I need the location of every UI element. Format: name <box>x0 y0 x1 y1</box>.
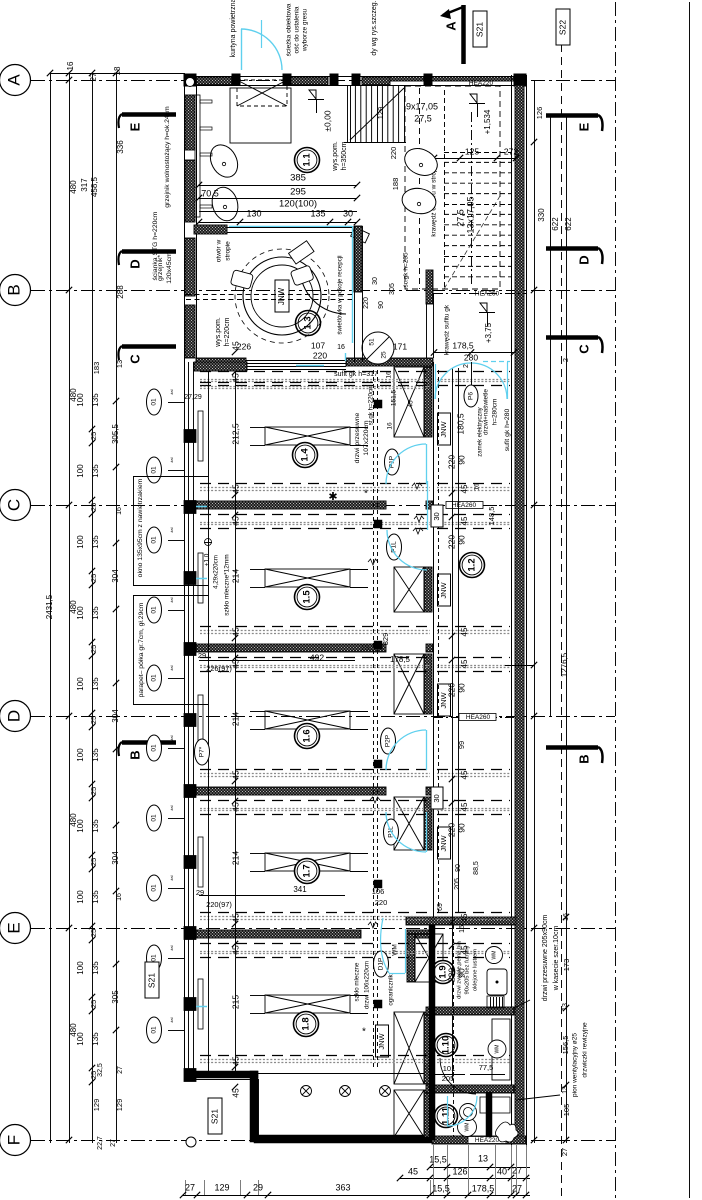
svg-text:45: 45 <box>230 373 240 383</box>
svg-text:B: B <box>127 750 142 759</box>
svg-text:01: 01 <box>151 1026 158 1034</box>
svg-text:99: 99 <box>457 741 466 749</box>
svg-text:B: B <box>4 284 23 295</box>
svg-text:HEA220: HEA220 <box>475 1137 500 1144</box>
svg-text:215: 215 <box>230 995 240 1009</box>
svg-text:st.gk h=220cm: st.gk h=220cm <box>368 385 375 425</box>
svg-text:żal: żal <box>169 665 174 670</box>
svg-text:100: 100 <box>76 393 85 407</box>
svg-text:25: 25 <box>89 716 98 724</box>
svg-text:100: 100 <box>76 748 85 762</box>
svg-text:01: 01 <box>151 466 158 474</box>
svg-text:16: 16 <box>66 61 75 70</box>
svg-text:29: 29 <box>253 1182 263 1192</box>
svg-text:212,5: 212,5 <box>230 423 240 445</box>
svg-text:grzejnik*: grzejnik* <box>157 255 164 281</box>
svg-text:27,29: 27,29 <box>184 394 202 401</box>
svg-text:P7*: P7* <box>199 746 206 757</box>
svg-text:drzwiczki rewizyjne: drzwiczki rewizyjne <box>582 1022 589 1078</box>
svg-text:135: 135 <box>310 208 325 218</box>
svg-text:grzejnik wolnostożący h=ok.24c: grzejnik wolnostożący h=ok.24cm <box>164 106 171 208</box>
svg-text:188: 188 <box>391 178 400 191</box>
svg-text:90: 90 <box>456 455 466 465</box>
svg-text:JNW: JNW <box>277 287 286 305</box>
svg-text:183: 183 <box>92 362 101 375</box>
svg-text:220(97): 220(97) <box>206 900 232 909</box>
svg-text:25: 25 <box>89 574 98 582</box>
svg-text:25: 25 <box>89 1000 98 1008</box>
svg-text:151,5: 151,5 <box>391 389 398 406</box>
svg-text:220: 220 <box>446 683 456 697</box>
svg-text:1.7: 1.7 <box>302 864 313 877</box>
svg-text:01: 01 <box>151 398 158 406</box>
svg-text:29: 29 <box>198 651 206 660</box>
svg-text:✱: ✱ <box>328 491 337 503</box>
svg-text:304: 304 <box>111 569 120 583</box>
svg-text:220: 220 <box>446 968 456 982</box>
svg-text:13: 13 <box>115 360 124 368</box>
svg-text:wys.pom.: wys.pom. <box>215 317 222 348</box>
svg-text:385: 385 <box>290 173 306 184</box>
svg-text:135: 135 <box>91 464 100 478</box>
svg-text:25: 25 <box>89 787 98 795</box>
svg-text:100: 100 <box>76 606 85 620</box>
svg-text:51: 51 <box>369 338 376 346</box>
svg-text:129: 129 <box>92 1099 101 1112</box>
svg-text:parapet– półka gr.7cm, gł.29cm: parapet– półka gr.7cm, gł.29cm <box>138 602 145 697</box>
svg-text:sufit gk h=317: sufit gk h=317 <box>334 371 378 378</box>
svg-text:oklejone lustrem: oklejone lustrem <box>473 949 479 991</box>
svg-text:A: A <box>443 21 458 31</box>
svg-text:1.2: 1.2 <box>467 558 478 571</box>
svg-text:HEA260: HEA260 <box>475 291 500 298</box>
svg-text:9x17,05: 9x17,05 <box>406 101 438 111</box>
svg-text:zamek elektryczny: zamek elektryczny <box>478 407 484 456</box>
svg-text:30: 30 <box>372 277 379 285</box>
svg-text:180,5: 180,5 <box>455 413 465 435</box>
svg-text:w kasecie szer.10cm: w kasecie szer.10cm <box>553 926 560 992</box>
svg-text:h=220cm: h=220cm <box>224 317 231 346</box>
svg-text:69: 69 <box>437 903 444 911</box>
svg-text:F: F <box>4 1135 23 1145</box>
svg-text:30: 30 <box>343 208 353 218</box>
svg-text:B: B <box>576 754 591 763</box>
svg-text:100: 100 <box>76 677 85 691</box>
svg-text:01: 01 <box>151 606 158 614</box>
svg-text:27,5: 27,5 <box>414 113 432 123</box>
svg-text:205: 205 <box>454 878 461 890</box>
svg-text:P2P: P2P <box>385 735 392 747</box>
svg-text:305: 305 <box>389 283 396 295</box>
svg-text:90: 90 <box>456 535 466 545</box>
svg-text:70,5: 70,5 <box>201 188 219 198</box>
svg-text:S21: S21 <box>474 22 484 37</box>
svg-text:45: 45 <box>230 484 240 494</box>
svg-text:45: 45 <box>230 802 240 812</box>
svg-text:107: 107 <box>311 340 325 350</box>
svg-text:100: 100 <box>76 464 85 478</box>
svg-text:1.5: 1.5 <box>302 590 313 604</box>
svg-text:WM: WM <box>392 944 399 956</box>
svg-text:27: 27 <box>110 1139 117 1147</box>
svg-text:16: 16 <box>116 507 123 515</box>
svg-text:D: D <box>4 710 23 722</box>
svg-text:+1,534: +1,534 <box>483 109 492 134</box>
svg-text:205: 205 <box>442 1074 455 1083</box>
svg-text:żal: żal <box>169 597 174 602</box>
svg-text:280: 280 <box>464 352 478 362</box>
svg-text:śc.gk h=235: śc.gk h=235 <box>403 252 410 288</box>
svg-text:45: 45 <box>230 945 240 955</box>
svg-text:341: 341 <box>293 885 307 894</box>
svg-text:S21: S21 <box>146 973 156 988</box>
svg-text:27,5: 27,5 <box>455 209 465 227</box>
svg-text:101: 101 <box>443 1064 456 1073</box>
svg-text:45: 45 <box>230 913 240 923</box>
svg-text:*: * <box>364 489 368 500</box>
svg-text:304: 304 <box>111 709 120 723</box>
svg-text:45: 45 <box>460 802 469 811</box>
svg-text:1.10: 1.10 <box>441 1036 452 1055</box>
svg-text:1.11: 1.11 <box>441 1106 452 1125</box>
svg-text:13: 13 <box>478 1153 488 1163</box>
svg-text:1.8: 1.8 <box>301 1017 312 1030</box>
svg-text:25: 25 <box>89 858 98 866</box>
svg-text:90: 90 <box>456 823 466 833</box>
svg-text:295: 295 <box>290 187 306 198</box>
svg-text:WM: WM <box>464 1123 470 1132</box>
svg-text:171: 171 <box>393 341 407 351</box>
svg-text:h=350cm: h=350cm <box>341 141 348 170</box>
svg-text:01: 01 <box>151 814 158 822</box>
svg-text:220: 220 <box>313 350 327 360</box>
svg-text:126: 126 <box>535 107 544 120</box>
svg-text:szkło mleczne*12mm: szkło mleczne*12mm <box>224 554 231 615</box>
svg-text:1.4: 1.4 <box>300 448 311 462</box>
svg-text:15,5: 15,5 <box>429 1154 447 1164</box>
svg-text:173: 173 <box>562 959 571 972</box>
svg-text:ość do ustalenia: ość do ustalenia <box>294 6 301 53</box>
svg-text:30: 30 <box>432 512 441 520</box>
svg-text:25: 25 <box>381 351 388 359</box>
svg-text:16: 16 <box>337 344 345 351</box>
svg-text:stropie: stropie <box>225 241 232 261</box>
svg-text:220: 220 <box>389 147 398 160</box>
svg-text:77,5: 77,5 <box>479 1063 494 1072</box>
svg-text:135: 135 <box>91 890 100 904</box>
svg-text:JNW: JNW <box>377 1032 386 1049</box>
svg-text:żal: żal <box>169 457 174 462</box>
svg-text:25: 25 <box>89 503 98 511</box>
svg-text:22,7: 22,7 <box>97 1136 104 1150</box>
svg-text:16: 16 <box>387 422 394 430</box>
svg-text:kurtyna powietrzna: kurtyna powietrzna <box>230 0 237 57</box>
svg-text:ogranicznik: ogranicznik <box>388 973 395 1005</box>
svg-text:288: 288 <box>116 285 125 299</box>
svg-text:45: 45 <box>230 1088 240 1098</box>
svg-text:45: 45 <box>460 484 469 493</box>
svg-text:130: 130 <box>246 208 261 218</box>
svg-text:135: 135 <box>91 606 100 620</box>
svg-text:13: 13 <box>562 1003 569 1011</box>
svg-text:01: 01 <box>151 674 158 682</box>
svg-text:otwór w: otwór w <box>216 240 223 263</box>
svg-text:25: 25 <box>89 929 98 937</box>
svg-text:30: 30 <box>432 794 441 802</box>
svg-text:25: 25 <box>89 645 98 653</box>
svg-text:220: 220 <box>446 535 456 549</box>
svg-text:129: 129 <box>214 1182 229 1192</box>
svg-text:krawędź sufitu gk: krawędź sufitu gk <box>444 304 451 355</box>
svg-text:129: 129 <box>115 1099 124 1112</box>
svg-text:90: 90 <box>455 864 462 872</box>
svg-text:01: 01 <box>151 954 158 962</box>
svg-text:01: 01 <box>151 744 158 752</box>
svg-text:178,5: 178,5 <box>472 1183 495 1193</box>
svg-text:4,29x220cm: 4,29x220cm <box>213 555 220 589</box>
svg-text:135: 135 <box>91 748 100 762</box>
svg-text:304: 304 <box>111 851 120 865</box>
svg-text:305: 305 <box>111 990 120 1004</box>
svg-text:45: 45 <box>460 659 469 668</box>
svg-text:106: 106 <box>372 887 385 896</box>
svg-text:16: 16 <box>474 483 481 491</box>
svg-text:135: 135 <box>91 819 100 833</box>
svg-text:1276,5: 1276,5 <box>560 652 569 677</box>
svg-text:305,5: 305,5 <box>111 423 120 444</box>
svg-text:214: 214 <box>230 712 240 726</box>
svg-text:27: 27 <box>185 1182 195 1192</box>
svg-text:HEA260: HEA260 <box>466 714 491 721</box>
svg-text:C: C <box>576 344 591 354</box>
svg-text:317: 317 <box>80 178 89 192</box>
svg-text:żal: żal <box>169 945 174 950</box>
svg-text:15,5: 15,5 <box>361 643 376 652</box>
svg-text:90x205 bez futryny: 90x205 bez futryny <box>465 945 471 994</box>
svg-text:P1L: P1L <box>391 541 398 553</box>
svg-text:żal: żal <box>169 735 174 740</box>
svg-text:drzwi 106x220cm: drzwi 106x220cm <box>364 961 371 1009</box>
svg-text:1.6: 1.6 <box>302 729 313 742</box>
svg-text:wys.pom.: wys.pom. <box>332 141 339 172</box>
svg-text:135: 135 <box>91 1032 100 1046</box>
svg-text:+3,75: +3,75 <box>484 322 493 343</box>
svg-text:D: D <box>127 259 142 268</box>
svg-text:16: 16 <box>386 371 393 379</box>
svg-text:88,5: 88,5 <box>473 861 480 875</box>
svg-text:45: 45 <box>408 400 415 408</box>
svg-text:WM: WM <box>491 951 497 960</box>
svg-text:622: 622 <box>551 217 560 231</box>
svg-text:JNW: JNW <box>439 420 448 437</box>
svg-text:329: 329 <box>381 633 390 646</box>
svg-text:drzwi+naświetle: drzwi+naświetle <box>483 389 490 435</box>
svg-text:45: 45 <box>230 627 240 637</box>
svg-text:220: 220 <box>363 297 370 309</box>
svg-text:drzwi przesuwne 205x90cm: drzwi przesuwne 205x90cm <box>542 915 549 1002</box>
svg-text:świetlówka w pokoje recepcji: świetlówka w pokoje recepcji <box>337 255 344 334</box>
svg-text:13: 13 <box>562 1086 569 1094</box>
svg-text:sufit gk h=280: sufit gk h=280 <box>504 409 511 452</box>
svg-text:45: 45 <box>230 1056 240 1066</box>
svg-text:100: 100 <box>76 535 85 549</box>
svg-text:żal: żal <box>169 1017 174 1022</box>
svg-text:125: 125 <box>465 146 479 156</box>
svg-text:148,5: 148,5 <box>487 507 496 526</box>
svg-text:16: 16 <box>116 893 123 901</box>
svg-text:100: 100 <box>76 819 85 833</box>
svg-text:45: 45 <box>230 770 240 780</box>
svg-text:+1,0: +1,0 <box>204 553 211 566</box>
svg-text:±0,00: ±0,00 <box>322 110 332 131</box>
svg-text:100: 100 <box>76 961 85 975</box>
svg-text:2: 2 <box>563 358 570 362</box>
svg-text:15,5: 15,5 <box>432 1183 450 1193</box>
svg-text:01: 01 <box>151 884 158 892</box>
svg-text:45: 45 <box>460 770 469 779</box>
svg-text:S21: S21 <box>209 1109 219 1124</box>
svg-text:27: 27 <box>117 1066 124 1074</box>
svg-text:żal: żal <box>169 805 174 810</box>
svg-text:458,5: 458,5 <box>90 176 99 197</box>
svg-text:178,5: 178,5 <box>390 655 411 664</box>
svg-text:220: 220 <box>446 455 456 469</box>
svg-text:JNW: JNW <box>439 581 448 598</box>
svg-text:129: 129 <box>376 107 385 120</box>
svg-text:h=280cm: h=280cm <box>492 399 499 426</box>
svg-text:135: 135 <box>91 677 100 691</box>
svg-text:E: E <box>4 922 23 933</box>
svg-text:135: 135 <box>91 535 100 549</box>
svg-text:330: 330 <box>537 208 546 222</box>
svg-text:2: 2 <box>463 364 470 368</box>
svg-text:45: 45 <box>408 1166 418 1176</box>
svg-text:40: 40 <box>497 1166 507 1176</box>
svg-text:90: 90 <box>456 683 466 693</box>
svg-text:pion wentylacyjny ø25: pion wentylacyjny ø25 <box>572 1033 579 1097</box>
svg-text:szkło mleczne: szkło mleczne <box>354 962 361 1001</box>
svg-text:HEA260: HEA260 <box>452 502 477 509</box>
svg-text:ścieżka obiektowa: ścieżka obiektowa <box>286 3 293 56</box>
svg-text:156,5: 156,5 <box>561 1036 570 1055</box>
svg-text:120x45cm: 120x45cm <box>166 252 173 284</box>
svg-text:01: 01 <box>151 536 158 544</box>
svg-text:214: 214 <box>230 569 240 583</box>
svg-text:16: 16 <box>459 925 466 933</box>
svg-text:D: D <box>576 255 591 264</box>
svg-text:C: C <box>4 499 23 511</box>
svg-text:C: C <box>127 354 142 364</box>
svg-text:226: 226 <box>237 341 251 351</box>
svg-text:13x17,05: 13x17,05 <box>465 196 475 233</box>
svg-text:126: 126 <box>452 1166 467 1176</box>
svg-text:135: 135 <box>91 961 100 975</box>
svg-text:45: 45 <box>460 516 469 525</box>
svg-text:żal: żal <box>169 875 174 880</box>
svg-text:100: 100 <box>76 890 85 904</box>
svg-text:178,5: 178,5 <box>452 340 474 350</box>
svg-text:A: A <box>4 74 23 86</box>
svg-text:220: 220 <box>446 823 456 837</box>
svg-text:363: 363 <box>335 1182 350 1192</box>
svg-text:32,5: 32,5 <box>97 1063 104 1077</box>
svg-text:1.1: 1.1 <box>302 153 313 167</box>
svg-text:105: 105 <box>562 1104 571 1117</box>
svg-text:214: 214 <box>230 851 240 865</box>
svg-text:336: 336 <box>116 140 125 154</box>
svg-text:27: 27 <box>512 1165 522 1175</box>
svg-text:drzwi przesuwne: drzwi przesuwne <box>354 412 361 463</box>
svg-text:żal: żal <box>169 527 174 532</box>
svg-text:45: 45 <box>460 627 469 636</box>
svg-text:25: 25 <box>89 432 98 440</box>
svg-text:E: E <box>576 122 591 131</box>
svg-text:2431,5: 2431,5 <box>45 594 54 619</box>
svg-text:okno 135x95cm z nawietrzakiem: okno 135x95cm z nawietrzakiem <box>137 478 144 577</box>
svg-text:100: 100 <box>76 1032 85 1046</box>
svg-text:E: E <box>127 122 142 131</box>
svg-text:P6: P6 <box>468 392 475 400</box>
svg-text:45: 45 <box>230 516 240 526</box>
svg-text:135: 135 <box>91 393 100 407</box>
svg-text:dy wg rys.szczeg.: dy wg rys.szczeg. <box>371 0 378 55</box>
svg-text:45: 45 <box>460 913 469 922</box>
svg-text:27: 27 <box>89 72 98 81</box>
svg-text:220: 220 <box>375 898 388 907</box>
svg-text:480: 480 <box>69 180 78 194</box>
svg-text:*: * <box>362 1027 366 1038</box>
svg-text:622: 622 <box>564 217 573 231</box>
svg-text:27: 27 <box>560 1148 569 1156</box>
svg-text:18: 18 <box>113 66 122 75</box>
svg-text:S22: S22 <box>557 20 567 35</box>
svg-text:drzwi zwykłe,pełne,bia: drzwi zwykłe,pełne,bia <box>457 940 463 998</box>
svg-text:żal: żal <box>169 389 174 394</box>
svg-text:16: 16 <box>563 913 570 921</box>
svg-text:272: 272 <box>504 146 518 156</box>
svg-text:WM: WM <box>494 1045 500 1054</box>
svg-text:226(97): 226(97) <box>206 664 232 673</box>
svg-text:wyborze gresu: wyborze gresu <box>302 8 309 52</box>
svg-text:90: 90 <box>378 301 385 309</box>
